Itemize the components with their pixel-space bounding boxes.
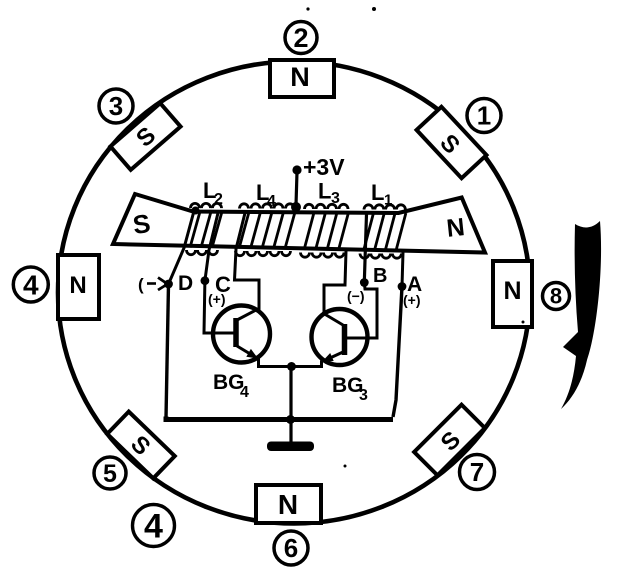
svg-text:2: 2 [214, 191, 223, 208]
wire BG4 emitter to junction [259, 358, 292, 367]
label L3 [318, 179, 340, 208]
rotation direction arrow [561, 221, 601, 409]
wire coil tap to node C [205, 213, 218, 281]
svg-text:B: B [373, 265, 387, 287]
speck [372, 7, 376, 11]
magnet S pole (position 5, lower-left) [107, 412, 175, 479]
svg-text:N: N [503, 277, 521, 305]
coil L3 winding [301, 204, 349, 257]
wire BG3 emitter to junction [292, 361, 322, 367]
node C [201, 272, 232, 297]
svg-text:3: 3 [359, 387, 368, 404]
transistor BG3 [312, 309, 378, 404]
junction dot coil center tap [291, 202, 301, 212]
svg-text:N: N [278, 489, 298, 520]
junction blob at winding start [192, 207, 200, 215]
svg-text:2: 2 [293, 23, 308, 53]
wire coil tap to BG4 collector [235, 213, 260, 310]
svg-text:8: 8 [550, 284, 562, 309]
svg-text:+3V: +3V [303, 154, 345, 180]
magnet N pole (position 6, bottom) [256, 485, 321, 523]
junction on bottom rail [286, 415, 295, 424]
junction emitters [287, 362, 296, 371]
stator core with pole shoes [113, 194, 485, 253]
wire node A down right side to bottom rail [393, 287, 402, 418]
svg-text:4: 4 [267, 193, 276, 210]
speck [306, 7, 309, 10]
label L1 [371, 180, 392, 209]
magnet S pole (position 3, upper-left) [110, 103, 180, 170]
+3V supply terminal [292, 154, 345, 180]
magnet N pole (position 8, right) [493, 261, 532, 327]
wire bottom rail [166, 417, 393, 420]
position label 1 [467, 99, 501, 133]
magnet N pole (position 2, top) [270, 60, 334, 97]
position label 7 [460, 455, 495, 490]
position label 6 [274, 531, 308, 565]
coil L4 winding [236, 204, 296, 256]
wire +3V to coil center tap [296, 172, 297, 205]
position label 5 [94, 457, 126, 489]
polarity mark (-) with arrow at D [138, 275, 168, 294]
label L4 [256, 180, 276, 210]
svg-text:6: 6 [284, 533, 298, 563]
node A [398, 273, 423, 296]
transistor BG4 [204, 306, 270, 402]
wire coil tap to node D [169, 211, 195, 284]
svg-text:(: ( [138, 275, 144, 294]
figure number (4) [133, 505, 175, 547]
wire node B to BG3 base [347, 283, 377, 339]
svg-text:3: 3 [109, 91, 123, 121]
svg-text:N: N [290, 62, 310, 92]
svg-text:5: 5 [103, 460, 117, 488]
svg-text:4: 4 [144, 507, 163, 545]
svg-text:N: N [69, 272, 86, 299]
svg-text:1: 1 [477, 101, 491, 131]
svg-text:L: L [371, 180, 384, 205]
svg-text:4: 4 [240, 384, 249, 401]
position label 4 (left) [13, 267, 48, 302]
wire node D down left side to bottom rail [166, 284, 169, 418]
svg-text:(+): (+) [403, 292, 421, 308]
ground [267, 442, 314, 452]
svg-text:L: L [318, 179, 331, 204]
svg-text:4: 4 [23, 269, 39, 300]
magnet N pole (position 4, left) [58, 255, 99, 319]
position label 2 [285, 22, 317, 54]
coil L2 winding [187, 203, 223, 254]
svg-text:7: 7 [470, 457, 484, 487]
magnet S pole (position 1, upper-right) [417, 107, 487, 178]
coil L1 winding [360, 205, 406, 258]
speck [522, 321, 525, 324]
magnet S pole (position 7, lower-right) [414, 405, 485, 476]
wire coil tap to BG3 collector [324, 251, 346, 312]
svg-text:(+): (+) [208, 291, 226, 307]
position label 8 [543, 283, 570, 310]
position label 3 [99, 89, 133, 123]
svg-text:N: N [445, 213, 466, 243]
wire coil tap to node A [402, 252, 403, 287]
svg-text:1: 1 [384, 192, 392, 209]
speck [344, 465, 347, 468]
wire coil tap to node B [364, 214, 366, 283]
svg-text:(−): (−) [347, 288, 365, 304]
node D [164, 272, 193, 295]
wire node C to BG4 base [204, 281, 233, 333]
svg-text:D: D [178, 272, 193, 295]
rotor ring (stator housing circle) [58, 62, 530, 524]
label L2 [203, 178, 223, 208]
wire emitter junction to ground [289, 367, 292, 443]
node B [360, 265, 388, 287]
svg-text:3: 3 [331, 190, 340, 207]
